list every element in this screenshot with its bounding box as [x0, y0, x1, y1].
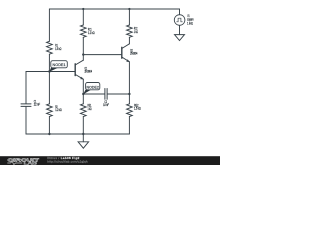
label R2	[55, 105, 62, 112]
label RC1	[88, 28, 95, 36]
label RE1	[88, 104, 92, 112]
svg-text:1.5 kΩ: 1.5 kΩ	[55, 47, 62, 51]
transistor Q2	[122, 44, 130, 62]
wire top rail	[49, 8, 179, 10]
svg-text:NODE1: NODE1	[53, 63, 66, 67]
wire Q1 base	[49, 71, 74, 73]
resistor RC2	[127, 9, 133, 44]
transistor Q1	[75, 60, 83, 79]
svg-text:NODE2: NODE2	[87, 85, 99, 89]
resistor RE2	[127, 94, 133, 134]
svg-text:1 kΩ: 1 kΩ	[88, 107, 92, 111]
node junction R2 bottom	[48, 133, 50, 135]
svg-text:1.5 kΩ: 1.5 kΩ	[134, 107, 141, 111]
svg-text:22 nF: 22 nF	[34, 103, 40, 107]
wire Q1 emitter	[82, 79, 84, 94]
voltage source V1	[174, 9, 185, 35]
ground main	[78, 134, 89, 148]
ground V1	[175, 35, 185, 41]
label RC2	[134, 27, 138, 34]
svg-text:10 nF: 10 nF	[103, 103, 109, 107]
node junction RE1 bottom	[82, 133, 84, 135]
label C1	[34, 99, 40, 106]
wire bottom rail	[26, 133, 129, 135]
svg-text:1 kHz: 1 kHz	[187, 21, 193, 25]
resistor R2	[47, 72, 53, 135]
capacitor C2	[83, 89, 129, 100]
watermark bar	[0, 156, 220, 165]
label V1	[187, 14, 194, 25]
wire Q2 emitter	[128, 62, 130, 94]
label R1	[55, 44, 62, 52]
node NODE1 flag	[49, 61, 67, 72]
svg-text:LAB: LAB	[24, 160, 37, 165]
label C2	[103, 100, 109, 107]
wire coupling Q1 collector to Q2 base	[83, 54, 121, 56]
label Q2	[130, 48, 137, 55]
svg-text:http://circuitlab.com/c2gjqh: http://circuitlab.com/c2gjqh	[47, 160, 87, 164]
node NODE1 junction	[48, 70, 50, 72]
resistor R1	[47, 9, 53, 72]
svg-text:2N3904: 2N3904	[130, 52, 137, 56]
capacitor C1	[21, 72, 31, 135]
label Q1	[85, 66, 93, 73]
svg-text:1.2 kΩ: 1.2 kΩ	[55, 108, 62, 112]
label RE2	[134, 104, 141, 111]
watermark logo wave	[7, 162, 22, 165]
resistor RC1	[80, 9, 86, 55]
node junction RC1 / Q2 base	[82, 53, 84, 55]
svg-text:1 kΩ: 1 kΩ	[134, 30, 138, 34]
wire NODE1 to C1	[26, 71, 49, 73]
node junction top rail / RC1	[82, 8, 84, 10]
node NODE2 flag	[83, 83, 100, 95]
svg-text:2N3904: 2N3904	[85, 70, 93, 74]
svg-text:1.2 kΩ: 1.2 kΩ	[88, 31, 95, 35]
node junction top rail / RC2	[128, 8, 130, 10]
node junction C2 / RE2	[128, 93, 130, 95]
wire Q1 collector	[82, 55, 84, 61]
node NODE2 junction	[82, 93, 84, 95]
resistor RE1	[80, 94, 86, 134]
